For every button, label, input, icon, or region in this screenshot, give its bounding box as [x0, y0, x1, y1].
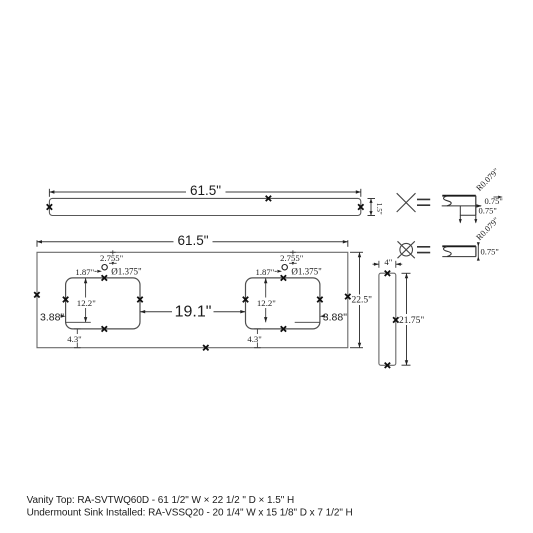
- svg-text:4.3": 4.3": [247, 334, 261, 344]
- svg-text:2.755": 2.755": [280, 253, 303, 263]
- svg-text:2.755": 2.755": [100, 253, 123, 263]
- right sink inner bottom line: [295, 321, 320, 323]
- svg-text:19.1": 19.1": [175, 303, 212, 320]
- profile 1 break squiggle: [443, 196, 451, 206]
- profile 1 step: [460, 206, 476, 215]
- right 12.2 dim: [265, 278, 267, 298]
- profile 1 front edge: [475, 196, 477, 216]
- svg-text:12.2": 12.2": [77, 298, 96, 308]
- left 12.2 dim: [85, 278, 87, 298]
- svg-text:Ø1.375": Ø1.375": [111, 266, 142, 276]
- svg-text:Undermount Sink Installed: RA-: Undermount Sink Installed: RA-VSSQ20 - 2…: [27, 508, 353, 519]
- profile 1 underside line with arrow: [442, 205, 481, 207]
- svg-text:12.2": 12.2": [257, 298, 276, 308]
- legend X symbol: [397, 193, 416, 212]
- svg-text:0.75": 0.75": [481, 247, 499, 257]
- svg-text:Ø1.375": Ø1.375": [291, 266, 322, 276]
- right sink edge marks: [243, 297, 248, 302]
- front view 61.5in dimension line: [49, 189, 360, 197]
- profile 2 thickness dim: [477, 243, 479, 260]
- svg-text:Vanity Top: RA-SVTWQ60D - 61 1: Vanity Top: RA-SVTWQ60D - 61 1/2" W × 22…: [27, 495, 295, 506]
- front view edge marks: [47, 204, 52, 209]
- profile 1 extension arrows down: [459, 215, 461, 222]
- svg-text:21.75": 21.75": [399, 316, 424, 326]
- left 2.755 dim line: [112, 250, 114, 264]
- left sink inner bottom line: [66, 321, 91, 323]
- right sink cutout: [246, 278, 320, 329]
- left sink edge marks: [63, 297, 68, 302]
- left sink cutout: [66, 278, 140, 329]
- 19.1 dim line: [140, 311, 172, 313]
- side view rectangle: [379, 273, 396, 365]
- left faucet hole: [102, 265, 107, 270]
- svg-text:1.87": 1.87": [256, 267, 275, 277]
- profile 1 top surface line: [442, 195, 476, 197]
- main rect edge marks: [34, 292, 39, 297]
- svg-text:4": 4": [384, 257, 392, 267]
- svg-text:1.87": 1.87": [75, 267, 94, 277]
- svg-text:1.5": 1.5": [375, 203, 383, 215]
- svg-text:61.5": 61.5": [177, 233, 208, 248]
- front view slab rectangle: [49, 198, 360, 215]
- main rectangle: [37, 252, 348, 347]
- svg-text:3.88": 3.88": [323, 311, 347, 323]
- main 22.5in dimension: [350, 252, 363, 347]
- side view edge marks: [385, 271, 390, 276]
- svg-text:R0.079": R0.079": [474, 215, 501, 242]
- svg-text:4.3": 4.3": [67, 334, 81, 344]
- right 4.3 dim: [256, 329, 258, 334]
- main 61.5in dimension line: [37, 240, 348, 247]
- svg-text:R0.079": R0.079": [474, 166, 501, 193]
- right 2.755 dim line: [292, 250, 294, 264]
- svg-text:22.5": 22.5": [352, 296, 373, 306]
- side 4in dim: [373, 261, 403, 268]
- legend equals sign: [417, 199, 430, 205]
- svg-text:0.75": 0.75": [479, 206, 497, 216]
- profile 2 break squiggle: [443, 247, 451, 257]
- side 21.75 dim: [402, 273, 411, 365]
- left 4.3 dim: [76, 329, 78, 334]
- right faucet hole: [282, 265, 287, 270]
- front view thickness dimension: [368, 199, 376, 216]
- legend 2 equals sign: [417, 247, 430, 253]
- svg-text:61.5": 61.5": [190, 183, 221, 198]
- profile 2 slab: [442, 245, 476, 247]
- legend circled X symbol: [400, 243, 413, 256]
